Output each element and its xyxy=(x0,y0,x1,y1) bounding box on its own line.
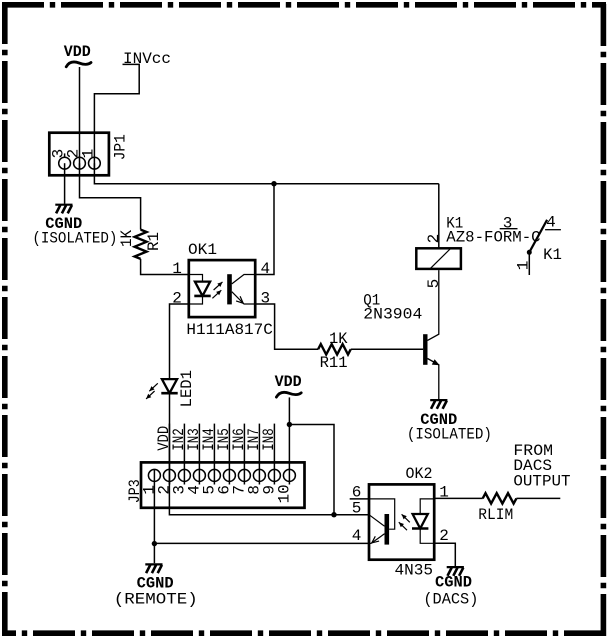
wire JP1 pin 1 to node row xyxy=(94,163,438,184)
svg-text:(REMOTE): (REMOTE) xyxy=(114,590,198,608)
JP3 pin 5 circle xyxy=(208,469,220,481)
svg-text:(ISOLATED): (ISOLATED) xyxy=(407,425,492,443)
svg-text:(DACS): (DACS) xyxy=(423,591,478,609)
wire OK1 pin 3 to R11 xyxy=(255,304,318,349)
ground CGND (REMOTE) xyxy=(145,563,162,565)
wire R1 to OK1 pin 1 xyxy=(141,259,189,275)
OK1 phototransistor bar xyxy=(227,274,232,304)
wire JP3 pin 6 upward xyxy=(228,424,230,485)
connector JP3 box xyxy=(141,462,305,507)
svg-text:4N35: 4N35 xyxy=(395,562,434,580)
contact armature xyxy=(529,220,547,253)
ground CGND (ISOLATED) under Q1 xyxy=(430,399,447,401)
opto OK1 box xyxy=(189,260,255,317)
svg-text:1: 1 xyxy=(172,260,182,278)
svg-text:OK2: OK2 xyxy=(406,465,433,483)
wire OK2 pin 1 to RLIM xyxy=(434,497,483,499)
svg-text:1: 1 xyxy=(80,149,98,159)
JP3 pin 1 circle xyxy=(148,469,160,481)
junction node at top row xyxy=(271,181,276,186)
svg-text:H111A817C: H111A817C xyxy=(186,321,273,339)
JP3 pin 8 circle xyxy=(253,469,265,481)
wire RLIM to output xyxy=(516,497,560,499)
opto OK2 box xyxy=(369,484,434,559)
OK1 light arrow 2 xyxy=(212,290,221,298)
svg-text:LED1: LED1 xyxy=(178,370,196,407)
wire VDD to JP1 pin 2 xyxy=(79,67,81,169)
wire top row down to relay coil xyxy=(438,184,440,249)
OK2 internal LED wiring xyxy=(420,499,434,543)
wire JP1 pin 2 down to R1 xyxy=(80,163,141,229)
svg-text:AZ8-FORM-C: AZ8-FORM-C xyxy=(446,229,540,247)
svg-text:5: 5 xyxy=(425,279,443,289)
wire JP3 pin 8 upward xyxy=(258,424,260,485)
wire OK2 pin 2 to ground xyxy=(434,543,455,566)
contact pivot dot xyxy=(527,250,532,255)
LED1 emission arrow 1 xyxy=(149,383,158,391)
wire node down to OK1 pin 4 xyxy=(255,184,274,275)
contact pin 4 stub xyxy=(545,229,561,231)
svg-text:6: 6 xyxy=(352,483,362,501)
wire JP1 pin 3 to ground xyxy=(64,163,66,204)
svg-text:RLIM: RLIM xyxy=(478,506,513,524)
ground CGND (ISOLATED) left xyxy=(55,204,72,206)
svg-text:2: 2 xyxy=(425,234,443,244)
svg-text:VDD: VDD xyxy=(275,373,302,391)
LED1 emission arrow 2 xyxy=(146,391,155,399)
junction dot OK2 pin5 branch xyxy=(331,512,336,517)
wire LED1 to JP3 pin 2 xyxy=(169,393,171,484)
JP1 pin 1 circle xyxy=(89,157,101,169)
svg-text:INVcc: INVcc xyxy=(123,50,171,68)
svg-text:OK1: OK1 xyxy=(188,241,217,259)
wire JP3 pin 9 upward xyxy=(273,424,275,485)
JP1 pin stub 3 xyxy=(64,153,66,157)
junction dot VDD2 branch xyxy=(287,422,292,427)
OK2 light arrow 2 xyxy=(399,522,407,530)
LED LED1 xyxy=(162,379,177,393)
svg-text:K1: K1 xyxy=(543,246,562,264)
OK1 emitter line xyxy=(232,292,255,304)
svg-text:(ISOLATED): (ISOLATED) xyxy=(32,229,117,247)
svg-text:2: 2 xyxy=(439,527,449,545)
OK2 phototransistor bar xyxy=(385,514,390,545)
svg-text:JP1: JP1 xyxy=(112,134,130,160)
wire VDD2 branch to OK2 pin 5 xyxy=(289,425,334,515)
JP3 pin 3 circle xyxy=(178,469,190,481)
contact common wire pin 1 xyxy=(528,252,530,275)
Q1 collector line xyxy=(428,270,439,340)
wire JP3 pin 2 upward xyxy=(168,424,170,485)
OK2 internal LED xyxy=(413,514,428,529)
wire INVcc to JP1 pin 1 xyxy=(94,64,139,169)
OK2 emitter line xyxy=(369,534,385,544)
JP3 pin 2 circle xyxy=(163,469,175,481)
JP3 pin 10 circle xyxy=(283,469,295,481)
svg-text:CGND: CGND xyxy=(435,573,472,591)
svg-text:IN8: IN8 xyxy=(260,428,278,451)
wire JP3 pin 4 upward xyxy=(198,424,200,485)
wire R11 to Q1 base xyxy=(351,348,423,350)
OK1 collector line xyxy=(232,275,255,284)
JP3 pin 4 circle xyxy=(193,469,205,481)
svg-text:4: 4 xyxy=(261,260,271,278)
JP3 pin 6 circle xyxy=(223,469,235,481)
OK1 internal LED wiring xyxy=(189,275,203,305)
connector JP1 box xyxy=(49,133,109,176)
svg-text:R11: R11 xyxy=(320,354,348,372)
OK1 internal LED xyxy=(195,282,210,296)
wire pin1 node to ground xyxy=(153,544,155,564)
OK2 base wiring xyxy=(369,499,395,529)
JP1 pin 3 circle xyxy=(59,157,71,169)
svg-text:VDD: VDD xyxy=(64,43,91,61)
wire JP3 pin 1 down xyxy=(153,469,155,543)
svg-text:3: 3 xyxy=(503,215,513,233)
svg-text:5: 5 xyxy=(352,500,362,518)
wire pin1 node to OK2 pin 4 xyxy=(154,542,369,544)
svg-text:4: 4 xyxy=(352,527,362,545)
OK2 collector line xyxy=(369,515,385,527)
resistor R11 1K xyxy=(318,344,351,354)
wire JP3 pin 5 upward xyxy=(213,424,215,485)
junction dot JP3 pin1 xyxy=(152,541,157,546)
svg-text:1K: 1K xyxy=(118,230,136,247)
wire JP3 pin 7 upward xyxy=(243,424,245,485)
svg-text:1K: 1K xyxy=(329,330,348,348)
svg-text:4: 4 xyxy=(546,214,556,232)
svg-text:1: 1 xyxy=(514,261,532,271)
svg-text:2N3904: 2N3904 xyxy=(363,305,422,323)
wire JP3 pin 3 upward xyxy=(183,424,185,485)
resistor R1 1K xyxy=(135,230,147,259)
JP1 pin 2 circle xyxy=(74,157,86,169)
OK2 pin6 stub xyxy=(350,498,369,500)
JP3 pin 9 circle xyxy=(268,469,280,481)
contact pin 3 stub xyxy=(500,228,518,230)
relay coil diagonal xyxy=(430,249,450,269)
wire VDD2 to JP3 pin 10 xyxy=(288,397,290,484)
wire JP3 pin 2 down to OK2 pin 5 xyxy=(169,481,369,514)
wire OK1 pin2 to LED1 xyxy=(170,304,189,379)
svg-text:OUTPUT: OUTPUT xyxy=(513,472,570,490)
ground CGND (DACS) xyxy=(447,566,464,568)
svg-text:10: 10 xyxy=(275,484,293,503)
JP3 pin 7 circle xyxy=(238,469,250,481)
OK1 light arrow 1 xyxy=(214,282,223,290)
resistor RLIM xyxy=(483,493,517,503)
relay K1 coil box xyxy=(416,248,461,269)
svg-text:R1: R1 xyxy=(145,232,163,251)
Q1 emitter line xyxy=(428,359,439,400)
transistor Q1 base bar xyxy=(423,334,427,365)
OK2 light arrow 1 xyxy=(402,514,410,522)
